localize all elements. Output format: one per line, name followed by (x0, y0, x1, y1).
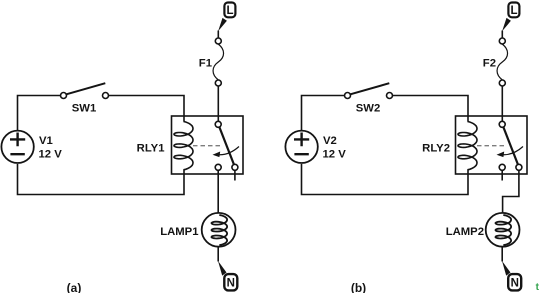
terminal L (a) (218, 3, 235, 32)
svg-text:F1: F1 (199, 57, 212, 69)
wire relay NC to LAMP1 (217, 170, 219, 213)
wire relay NO to LAMP2 (jog) (503, 170, 519, 213)
wire LAMP2 to N (501, 247, 503, 262)
relay RLY1 actuation dashed link (193, 145, 221, 147)
wire SW1 to relay coil top (109, 96, 185, 122)
relay RLY1 actuation arrow (213, 147, 240, 158)
svg-text:L: L (226, 5, 233, 17)
svg-text:N: N (227, 278, 235, 290)
wire V2 bottom to relay coil bottom (302, 164, 469, 195)
lamp LAMP2 (486, 213, 520, 247)
wire V1 top to SW1 (18, 96, 61, 131)
fuse F2 (497, 38, 508, 86)
svg-text:N: N (511, 278, 519, 290)
svg-text:SW1: SW1 (72, 103, 96, 115)
svg-text:(a): (a) (67, 281, 82, 293)
svg-text:F2: F2 (483, 57, 496, 69)
lamp LAMP1 (202, 213, 236, 247)
svg-text:12 V: 12 V (39, 149, 63, 161)
relay RLY1 contact blade (219, 127, 234, 164)
relay RLY1 NO terminal (232, 164, 238, 170)
svg-text:V1: V1 (39, 135, 53, 147)
svg-text:SW2: SW2 (356, 103, 380, 115)
wire V2 top to SW2 (302, 96, 345, 131)
voltage source V1 (1, 131, 33, 163)
svg-text:RLY1: RLY1 (137, 143, 165, 155)
svg-text:12 V: 12 V (323, 149, 347, 161)
wire L to fuse F2 (501, 31, 503, 39)
relay RLY2 body (456, 116, 528, 174)
relay RLY1 body (172, 116, 244, 174)
fuse F1 (213, 38, 224, 86)
relay RLY2 actuation dashed link (477, 145, 505, 147)
switch SW1 (61, 83, 109, 98)
svg-text:LAMP1: LAMP1 (160, 226, 198, 238)
wire SW2 to relay coil top (393, 96, 469, 122)
svg-text:(b): (b) (351, 281, 366, 293)
relay RLY2 NC terminal (499, 164, 505, 170)
relay RLY2 NO terminal (516, 164, 522, 170)
terminal L (b) (502, 3, 519, 32)
relay RLY2 coil (458, 122, 477, 170)
relay RLY2 NC stub (501, 170, 503, 180)
wire F1 to relay common (217, 86, 219, 121)
wire V1 bottom to relay coil bottom (18, 164, 185, 195)
svg-text:L: L (510, 5, 517, 17)
wire LAMP1 to N (217, 247, 219, 262)
relay RLY1 common terminal (215, 121, 221, 127)
svg-text:RLY2: RLY2 (422, 143, 450, 155)
relay RLY1 coil (174, 122, 193, 170)
relay RLY2 actuation arrow (497, 147, 524, 158)
svg-text:V2: V2 (323, 135, 337, 147)
wire F2 to relay common (501, 86, 503, 121)
voltage source V2 (285, 131, 317, 163)
svg-text:LAMP2: LAMP2 (446, 226, 484, 238)
relay RLY2 common terminal (499, 121, 505, 127)
terminal N (a) (218, 261, 237, 291)
wire L to fuse F1 (217, 31, 219, 39)
relay RLY1 NC terminal (215, 164, 221, 170)
terminal N (b) (502, 261, 521, 291)
switch SW2 (345, 83, 393, 98)
relay RLY2 contact blade (503, 127, 518, 164)
relay RLY1 NO stub (234, 170, 236, 180)
